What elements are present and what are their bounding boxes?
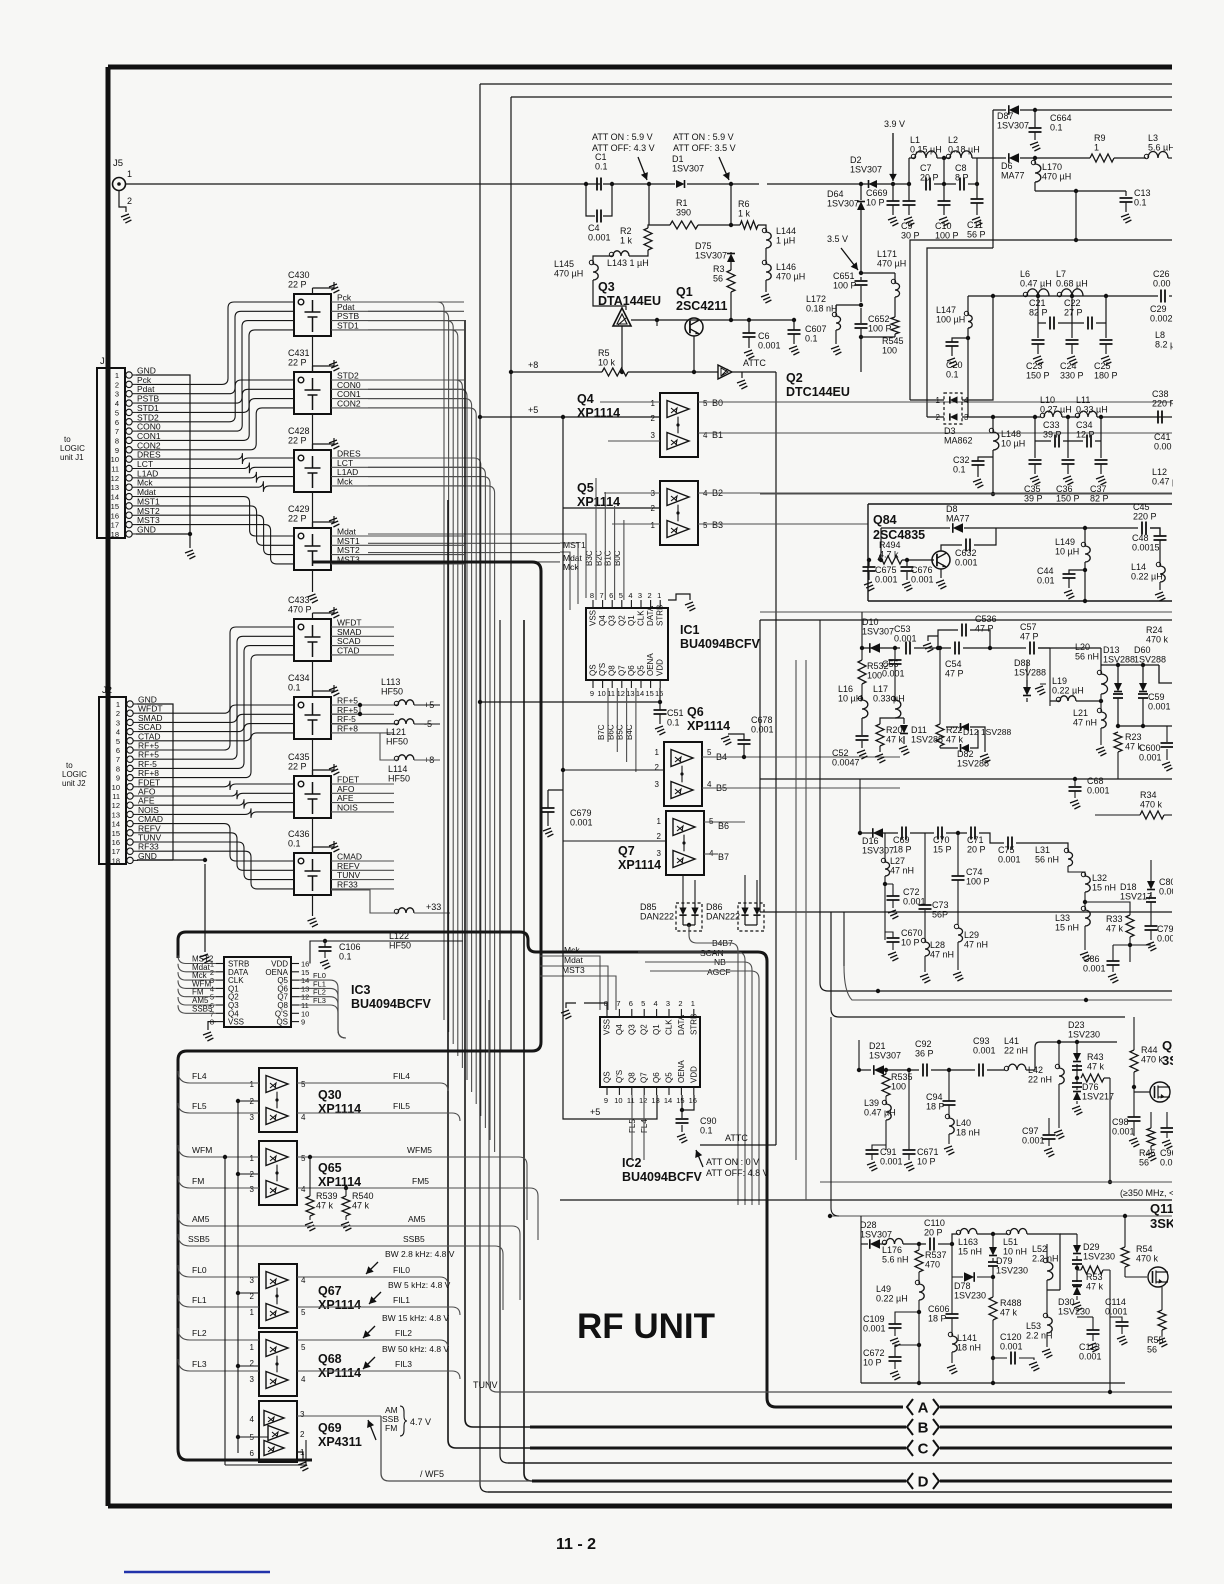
wire J2 pin 9 to C434	[138, 733, 294, 778]
svg-text:4: 4	[115, 399, 119, 408]
IC2 pin 15 OENA	[680, 1087, 682, 1095]
svg-text:8: 8	[590, 591, 594, 600]
svg-text:4: 4	[250, 1415, 255, 1424]
svg-text:2: 2	[651, 414, 656, 423]
svg-text:C52: C52	[832, 748, 849, 758]
svg-text:LOGIC: LOGIC	[60, 444, 85, 453]
svg-text:R33: R33	[1106, 914, 1123, 924]
IC2 pin 2 DATA	[680, 1009, 682, 1017]
svg-text:15: 15	[111, 502, 119, 511]
svg-text:FIL1: FIL1	[393, 1295, 410, 1305]
svg-text:22 P: 22 P	[288, 280, 307, 290]
wire J2 pin 14 to C436	[138, 824, 294, 861]
svg-text:10 P: 10 P	[901, 938, 920, 948]
svg-text:ATTC: ATTC	[743, 358, 766, 368]
svg-text:L41: L41	[1004, 1036, 1019, 1046]
svg-text:Q1: Q1	[652, 1024, 661, 1035]
svg-text:1SV230: 1SV230	[1083, 1252, 1115, 1262]
svg-text:0.18 nH: 0.18 nH	[806, 304, 838, 314]
IC IC1 BU4094BCFV	[586, 608, 668, 680]
svg-text:L141: L141	[957, 1333, 977, 1343]
connector J1	[97, 368, 125, 538]
svg-text:WFM5: WFM5	[407, 1145, 432, 1155]
svg-text:L39: L39	[864, 1098, 879, 1108]
IC3 pin 8 VSS	[216, 1021, 224, 1023]
wire J2 pin 11 to C435	[138, 790, 294, 799]
svg-text:D6: D6	[1001, 161, 1013, 171]
SCAN wire	[638, 952, 745, 1205]
svg-text:HF50: HF50	[388, 774, 410, 784]
svg-text:2: 2	[657, 832, 662, 841]
wire J2 pin 7 to C434	[138, 714, 294, 759]
svg-text:DTA144EU: DTA144EU	[598, 294, 661, 308]
svg-text:47 nH: 47 nH	[890, 866, 914, 876]
wire J1 pin 3 to C430	[137, 311, 294, 393]
svg-text:0.0015: 0.0015	[1132, 543, 1160, 553]
IC2 pin 16 VDD	[693, 1087, 695, 1095]
svg-text:D86: D86	[706, 902, 723, 912]
svg-text:Q8: Q8	[608, 665, 617, 676]
connector J2	[99, 697, 126, 864]
svg-text:3: 3	[116, 718, 120, 727]
svg-text:5: 5	[301, 1343, 306, 1352]
svg-text:470 k: 470 k	[1140, 800, 1163, 810]
svg-text:1SV288: 1SV288	[1014, 668, 1046, 678]
B0C-B3C verticals	[595, 478, 597, 600]
svg-text:470 µH: 470 µH	[877, 259, 906, 269]
svg-text:R43: R43	[1087, 1052, 1104, 1062]
svg-text:16: 16	[689, 1096, 697, 1105]
IC1 pin 16 VDD	[659, 680, 661, 688]
svg-text:5: 5	[301, 1308, 306, 1317]
svg-text:C435: C435	[288, 752, 310, 762]
svg-text:470 µH: 470 µH	[1042, 172, 1071, 182]
B4B7 wire	[689, 925, 738, 1205]
wire J1 pin 10 to C428	[137, 453, 294, 464]
svg-text:30 P: 30 P	[901, 231, 920, 241]
svg-text:QS: QS	[276, 1018, 288, 1027]
svg-text:12: 12	[639, 1096, 647, 1105]
svg-text:C48: C48	[1132, 533, 1149, 543]
svg-text:7: 7	[600, 591, 604, 600]
svg-text:C433: C433	[288, 595, 310, 605]
wire Q5 pin2 from +5	[562, 417, 564, 508]
svg-text:1SV307: 1SV307	[997, 121, 1029, 131]
svg-text:9: 9	[604, 1096, 608, 1105]
svg-text:8: 8	[116, 764, 120, 773]
svg-text:18 P: 18 P	[928, 1314, 947, 1324]
svg-text:C44: C44	[1037, 566, 1054, 576]
signal FL2	[178, 1328, 259, 1340]
svg-text:56: 56	[1147, 1345, 1157, 1355]
svg-text:13: 13	[112, 810, 120, 819]
IC1 pin 7 Q4	[602, 600, 604, 608]
svg-text:L6: L6	[1020, 269, 1030, 279]
bundle vertical x820	[819, 620, 821, 912]
svg-text:Mck: Mck	[337, 476, 353, 486]
IC3 pin 16 VDD	[291, 963, 299, 965]
svg-text:STRB: STRB	[689, 1014, 698, 1035]
wire bus row	[368, 311, 449, 1032]
svg-text:18 P: 18 P	[926, 1102, 945, 1112]
svg-text:IC3: IC3	[351, 983, 371, 997]
svg-text:0.001: 0.001	[875, 575, 898, 585]
svg-text:(≥350 MHz, <: (≥350 MHz, <	[1120, 1188, 1174, 1198]
svg-text:22 P: 22 P	[288, 358, 307, 368]
Q84 collector to C632	[941, 528, 996, 551]
svg-text:AM5: AM5	[408, 1214, 426, 1224]
svg-text:FL3: FL3	[313, 996, 326, 1005]
svg-text:C79: C79	[1157, 924, 1174, 934]
link C431-C428	[312, 414, 314, 450]
svg-text:D60: D60	[1134, 645, 1151, 655]
wire Q4 pin1	[600, 401, 660, 403]
svg-text:D75: D75	[695, 241, 712, 251]
svg-text:FIL5: FIL5	[393, 1101, 410, 1111]
thick bus from Mdat row to bottom rect	[178, 562, 541, 1460]
svg-text:470 k: 470 k	[1146, 635, 1169, 645]
svg-text:18 nH: 18 nH	[957, 1343, 981, 1353]
D3 pin4 wire up	[962, 296, 993, 400]
svg-text:56P: 56P	[932, 910, 948, 920]
bridge wire D87 to filter bank	[927, 110, 993, 417]
rail y612	[760, 611, 1172, 613]
svg-text:MA862: MA862	[944, 436, 973, 446]
svg-text:0.001: 0.001	[911, 575, 934, 585]
svg-text:1: 1	[115, 371, 119, 380]
svg-text:L27: L27	[890, 856, 905, 866]
svg-text:C86: C86	[1083, 954, 1100, 964]
svg-text:9: 9	[116, 774, 120, 783]
svg-text:150 P: 150 P	[1056, 494, 1080, 504]
svg-text:Mck: Mck	[564, 945, 580, 955]
svg-text:470 k: 470 k	[1136, 1254, 1159, 1264]
svg-text:BW 5 kHz: 4.8 V: BW 5 kHz: 4.8 V	[388, 1280, 451, 1290]
svg-text:15: 15	[676, 1096, 684, 1105]
svg-text:10 µH: 10 µH	[1001, 439, 1025, 449]
rail y1017	[831, 912, 1125, 1017]
wires to D85/D86	[683, 875, 757, 903]
IC3 pin 6 Q3	[216, 1004, 224, 1006]
resistor R1	[670, 221, 698, 229]
svg-text:OENA: OENA	[646, 653, 655, 676]
svg-text:4: 4	[628, 591, 632, 600]
svg-text:47 P: 47 P	[975, 624, 994, 634]
AGCF wire	[650, 971, 759, 1205]
svg-text:39 P: 39 P	[1024, 494, 1043, 504]
svg-text:CLK: CLK	[665, 1019, 674, 1035]
svg-text:16: 16	[655, 689, 663, 698]
svg-text:XP4311: XP4311	[318, 1435, 362, 1449]
svg-text:FL5: FL5	[192, 1101, 207, 1111]
IC2 pin 13 Q6	[656, 1087, 658, 1095]
svg-text:C54: C54	[945, 659, 962, 669]
IC1 pin 6 Q3	[611, 600, 613, 608]
svg-text:QS: QS	[589, 664, 598, 676]
WFM junction vertical	[224, 1157, 226, 1465]
svg-text:1: 1	[691, 999, 695, 1008]
svg-text:Q5: Q5	[665, 1072, 674, 1083]
capacitor C24	[1066, 340, 1079, 344]
svg-text:BW 50 kHz: 4.8 V: BW 50 kHz: 4.8 V	[382, 1344, 449, 1354]
svg-text:C98: C98	[1112, 1117, 1129, 1127]
svg-text:Q1: Q1	[627, 615, 636, 626]
svg-text:STD1: STD1	[337, 320, 359, 330]
svg-text:18: 18	[111, 530, 119, 539]
svg-text:C37: C37	[1090, 484, 1107, 494]
svg-text:470 µH: 470 µH	[776, 272, 805, 282]
svg-text:3: 3	[250, 1113, 255, 1122]
svg-text:3: 3	[250, 1375, 255, 1384]
svg-text:0.1: 0.1	[339, 952, 352, 962]
svg-text:MA77: MA77	[1001, 171, 1025, 181]
svg-text:LOGIC: LOGIC	[62, 770, 87, 779]
svg-text:J1: J1	[100, 356, 110, 367]
svg-text:15: 15	[112, 829, 120, 838]
svg-text:0.1: 0.1	[946, 370, 959, 380]
rail y1216	[830, 1215, 1172, 1217]
svg-text:STRB: STRB	[656, 605, 665, 626]
bus vertical x511	[510, 97, 512, 1050]
capacitor C434	[294, 697, 331, 739]
svg-text:C59: C59	[1148, 692, 1165, 702]
svg-text:C24: C24	[1060, 361, 1077, 371]
C113 feed	[1077, 1316, 1093, 1318]
inductor L2	[950, 151, 972, 158]
svg-text:RF+8: RF+8	[337, 723, 358, 733]
vertical x1110 cluster right	[1109, 1270, 1111, 1392]
svg-text:5: 5	[301, 1154, 306, 1163]
svg-text:L149: L149	[1055, 537, 1075, 547]
capacitor C436	[294, 853, 331, 895]
svg-text:5: 5	[703, 521, 708, 530]
IC1 pin 11 Q8	[611, 680, 613, 688]
+5 wires Q6/Q7 pin2	[563, 770, 666, 841]
C line	[530, 1447, 906, 1450]
svg-text:0.001: 0.001	[1083, 964, 1106, 974]
svg-text:D1: D1	[672, 154, 684, 164]
link C435-C436	[312, 818, 314, 853]
svg-text:FL2: FL2	[192, 1328, 207, 1338]
svg-text:ATT ON : 0 V: ATT ON : 0 V	[706, 1157, 759, 1167]
svg-text:Q6: Q6	[627, 665, 636, 676]
svg-text:3: 3	[655, 780, 660, 789]
svg-text:VDD: VDD	[656, 659, 665, 676]
link C428-C429	[312, 492, 314, 528]
+5 rail to IC1 vdd	[480, 701, 660, 703]
svg-text:D78: D78	[954, 1281, 971, 1291]
wire J1 pin 8 to C431	[137, 399, 294, 441]
svg-text:4: 4	[654, 999, 658, 1008]
rail y779	[760, 778, 1172, 780]
svg-text:R9: R9	[1094, 133, 1106, 143]
rail y1383	[861, 1382, 1125, 1384]
svg-text:12: 12	[112, 801, 120, 810]
svg-text:16: 16	[112, 838, 120, 847]
A line right	[940, 1406, 1172, 1409]
wire J2 pin 17 to C436	[138, 851, 294, 889]
IC1 strb gnd	[668, 594, 690, 600]
capacitor C10	[938, 201, 951, 205]
svg-text:XP1114: XP1114	[687, 719, 730, 733]
signal SSB5	[178, 1234, 259, 1246]
wire J2 pin 8 to C434	[138, 724, 294, 769]
svg-text:1SV230: 1SV230	[954, 1291, 986, 1301]
svg-text:22 P: 22 P	[288, 514, 307, 524]
svg-text:R539: R539	[316, 1191, 338, 1201]
inner frame line 2	[511, 96, 1172, 98]
svg-text:1: 1	[651, 521, 656, 530]
wire bus row	[368, 321, 453, 1044]
svg-text:L1: L1	[910, 135, 920, 145]
wire bus row	[368, 458, 481, 1116]
svg-text:DATA: DATA	[646, 605, 655, 626]
svg-text:DAN222: DAN222	[640, 912, 674, 922]
IC2 pin 6 Q3	[631, 1009, 633, 1017]
bus vertical x465	[465, 320, 530, 1427]
svg-text:1: 1	[250, 1080, 255, 1089]
svg-text:D11: D11	[911, 725, 927, 735]
svg-text:C652: C652	[868, 314, 890, 324]
svg-text:R3: R3	[713, 264, 725, 274]
svg-text:15 nH: 15 nH	[958, 1247, 982, 1257]
wire J2 pin 10 to C435	[138, 781, 294, 790]
svg-text:B7: B7	[718, 852, 729, 862]
transistor Q84 npn	[932, 551, 950, 569]
svg-text:R537: R537	[925, 1250, 947, 1260]
svg-text:HF50: HF50	[381, 687, 403, 697]
svg-text:470 k: 470 k	[1141, 1055, 1164, 1065]
svg-text:Q2: Q2	[786, 371, 803, 385]
svg-text:J5: J5	[113, 158, 123, 169]
svg-text:470: 470	[925, 1260, 940, 1270]
signal WFM	[178, 1145, 259, 1157]
svg-text:1SV288: 1SV288	[1134, 655, 1166, 665]
svg-text:Mck: Mck	[563, 562, 579, 572]
IC3 VSS gnd	[208, 1022, 216, 1030]
svg-text:C1: C1	[595, 152, 607, 162]
capacitor C11	[971, 199, 984, 203]
svg-text:2: 2	[936, 413, 941, 422]
svg-text:C606: C606	[928, 1304, 950, 1314]
svg-text:4: 4	[301, 1375, 306, 1384]
svg-text:5: 5	[116, 737, 120, 746]
svg-text:R24: R24	[1146, 625, 1163, 635]
capacitor C25	[1100, 340, 1113, 344]
svg-text:D10: D10	[862, 617, 879, 627]
ladder2 rail2	[1035, 417, 1101, 458]
svg-text:18: 18	[112, 856, 120, 865]
link C430-C431	[312, 336, 314, 372]
ladder verticals	[943, 158, 945, 184]
svg-text:C29: C29	[1150, 304, 1167, 314]
svg-text:L10: L10	[1040, 395, 1055, 405]
svg-text:R6: R6	[738, 199, 750, 209]
capacitor C36	[1062, 460, 1075, 464]
svg-text:1: 1	[250, 1343, 255, 1352]
svg-text:C11: C11	[967, 220, 983, 230]
svg-text:C8: C8	[955, 163, 967, 173]
svg-text:FL4: FL4	[192, 1071, 207, 1081]
svg-text:ATTC: ATTC	[725, 1133, 748, 1143]
svg-text:B: B	[918, 1420, 929, 1437]
signal FL4	[178, 1071, 259, 1083]
svg-text:C33: C33	[1043, 420, 1060, 430]
wire J1 pin 5 to C430	[137, 330, 294, 413]
svg-text:3: 3	[250, 1185, 255, 1194]
wire J2 pin 13 to C435	[138, 808, 294, 818]
svg-text:VSS: VSS	[228, 1018, 244, 1027]
wire RF+8 to L114	[331, 733, 440, 760]
svg-text:C632: C632	[955, 548, 977, 558]
svg-text:RF UNIT: RF UNIT	[577, 1307, 715, 1346]
svg-text:22 P: 22 P	[288, 436, 307, 446]
svg-text:1 k: 1 k	[620, 236, 633, 246]
svg-text:HF50: HF50	[386, 737, 408, 747]
svg-text:to: to	[66, 761, 73, 770]
svg-text:Q3: Q3	[608, 615, 617, 626]
svg-text:17: 17	[112, 847, 120, 856]
svg-text:B1: B1	[712, 430, 723, 440]
svg-text:11: 11	[112, 792, 120, 801]
svg-text:4: 4	[703, 431, 708, 440]
svg-text:FM: FM	[192, 1176, 204, 1186]
svg-text:11: 11	[111, 465, 119, 474]
svg-text:C38: C38	[1152, 389, 1169, 399]
svg-text:C664: C664	[1050, 113, 1072, 123]
svg-text:47 k: 47 k	[1000, 1308, 1018, 1318]
bus vertical x500	[500, 620, 1172, 1463]
svg-text:10 P: 10 P	[863, 1358, 882, 1368]
svg-text:0.001: 0.001	[998, 855, 1021, 865]
svg-text:11: 11	[627, 1096, 635, 1105]
svg-text:C600: C600	[1139, 743, 1161, 753]
svg-text:6: 6	[609, 591, 613, 600]
svg-text:Q7: Q7	[617, 665, 626, 676]
svg-text:3.9 V: 3.9 V	[884, 119, 905, 129]
svg-text:1SV307: 1SV307	[850, 165, 882, 175]
svg-text:3: 3	[651, 431, 656, 440]
IC1 pin 2 DATA	[650, 600, 652, 608]
svg-text:56: 56	[713, 274, 723, 284]
svg-text:FL3: FL3	[192, 1359, 207, 1369]
svg-text:0.1: 0.1	[1134, 198, 1147, 208]
svg-text:5: 5	[619, 591, 623, 600]
svg-text:47 P: 47 P	[945, 669, 964, 679]
svg-text:18 P: 18 P	[893, 845, 912, 855]
svg-text:1: 1	[657, 591, 661, 600]
svg-text:L29: L29	[964, 930, 979, 940]
svg-text:10 µH: 10 µH	[1055, 547, 1079, 557]
svg-text:XP1114: XP1114	[318, 1366, 361, 1380]
svg-text:0.001: 0.001	[973, 1046, 996, 1056]
svg-text:0.002: 0.002	[1150, 314, 1173, 324]
svg-text:C434: C434	[288, 673, 310, 683]
svg-text:2: 2	[115, 380, 119, 389]
IC1 pin 3 CLK	[640, 600, 642, 608]
svg-text:L145: L145	[554, 259, 574, 269]
svg-text:0.001: 0.001	[570, 818, 593, 828]
svg-text:2: 2	[116, 709, 120, 718]
svg-text:D64: D64	[827, 189, 844, 199]
Q1 rail	[631, 319, 794, 321]
svg-text:L171: L171	[877, 249, 897, 259]
svg-text:C36: C36	[1056, 484, 1073, 494]
C536 gnd hook	[928, 636, 938, 641]
svg-text:47 k: 47 k	[1086, 1282, 1104, 1292]
capacitor C428	[294, 450, 331, 492]
svg-text:C34: C34	[1076, 420, 1093, 430]
